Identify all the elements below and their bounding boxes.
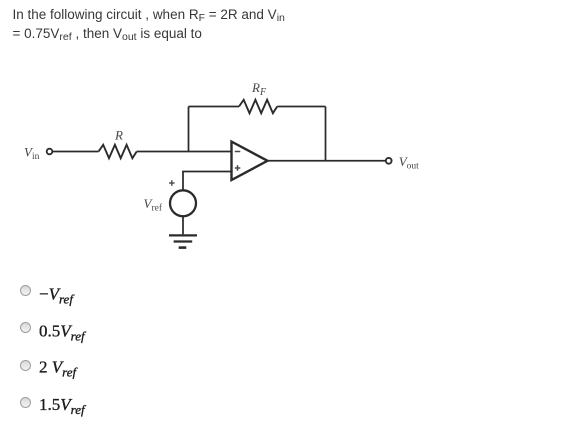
svg-text:RF: RF [251, 80, 267, 98]
wire non-inverting input [183, 172, 232, 191]
op-amp plus pin mark [235, 165, 241, 171]
node Vin terminal [47, 149, 53, 155]
resistor RF [239, 100, 277, 113]
voltage source Vref [170, 190, 196, 216]
wire feedback right vertical [325, 107, 327, 161]
wire output [268, 160, 386, 162]
svg-text:−Vref: −Vref [39, 285, 75, 307]
svg-text:Vref: Vref [144, 196, 163, 214]
op-amp minus pin mark [235, 151, 241, 153]
wire source to ground [182, 216, 184, 234]
resistor R [99, 145, 137, 158]
node Vout terminal [386, 158, 392, 164]
svg-text:1.5Vref: 1.5Vref [39, 395, 87, 417]
polarity plus of Vref [169, 180, 175, 186]
svg-text:R: R [114, 128, 123, 143]
svg-text:Vin: Vin [24, 145, 40, 163]
ground [169, 235, 197, 247]
wire feedback top right [277, 106, 325, 108]
wire input [53, 151, 99, 153]
svg-text:Vout: Vout [399, 154, 419, 172]
wire feedback top left [189, 106, 240, 108]
svg-text:0.5Vref: 0.5Vref [39, 321, 87, 343]
svg-text:2 Vref: 2 Vref [39, 358, 78, 380]
wire feedback left vertical [188, 107, 190, 152]
wire R to op-amp inverting input [137, 151, 232, 153]
op-amp U1 [232, 142, 268, 180]
